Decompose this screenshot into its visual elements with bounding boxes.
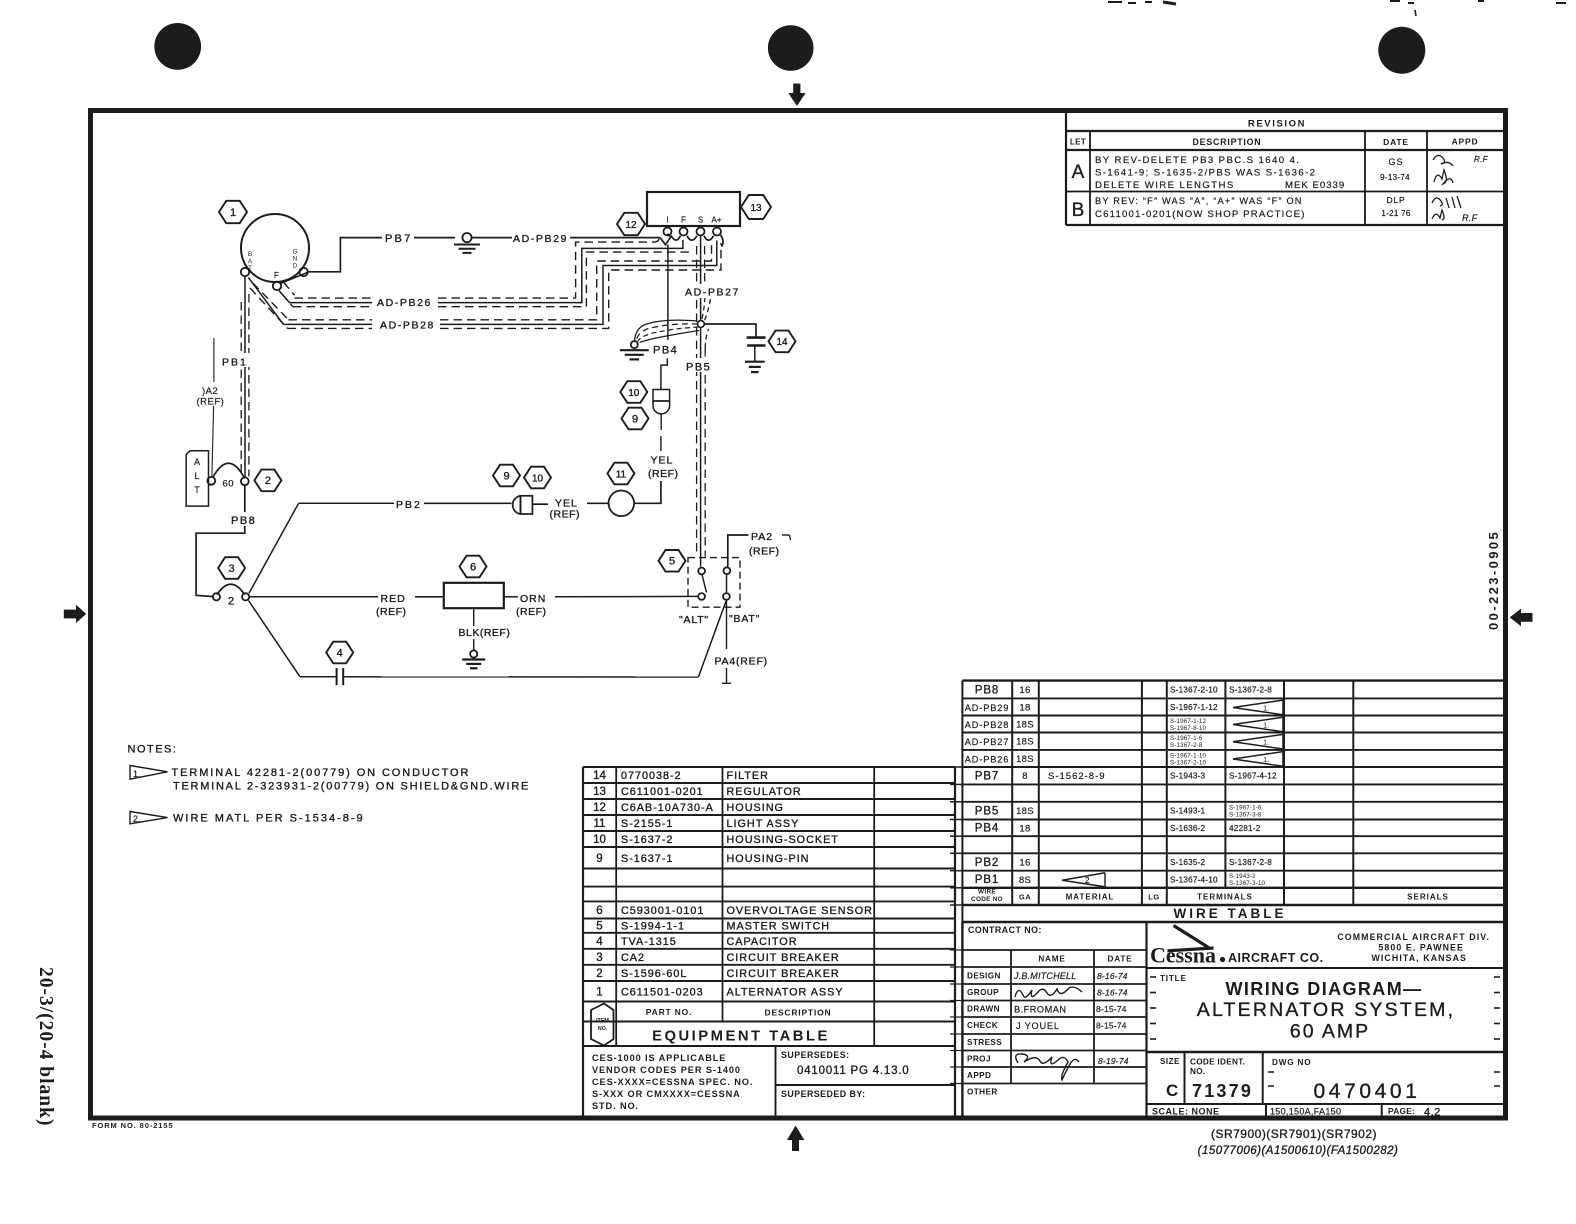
svg-text:REVISION: REVISION [1248,119,1306,130]
note flag 2 [130,812,168,824]
svg-text:11: 11 [594,818,606,830]
svg-text:APPD: APPD [967,1071,991,1080]
svg-text:S-1967-4-12: S-1967-4-12 [1229,772,1277,781]
svg-text:4: 4 [337,647,343,659]
svg-text:00-223-0905: 00-223-0905 [1486,530,1501,630]
svg-text:2: 2 [265,475,271,487]
svg-text:S-1967-1-12: S-1967-1-12 [1170,718,1207,725]
revision table [1065,112,1067,225]
svg-text:HOUSING-PIN: HOUSING-PIN [727,853,810,865]
svg-text:NAME: NAME [1038,955,1065,964]
svg-text:TVA-1315: TVA-1315 [621,936,677,948]
wire [570,237,660,239]
svg-text:TERMINALS: TERMINALS [1197,893,1253,902]
svg-text:PB5: PB5 [686,362,711,374]
svg-text:EQUIPMENT TABLE: EQUIPMENT TABLE [652,1029,830,1045]
svg-text:ALTERNATOR ASSY: ALTERNATOR ASSY [727,986,844,998]
callout hexagon 14 [769,331,796,353]
equipment table [583,766,955,768]
svg-text:S-1967-1-6: S-1967-1-6 [1170,735,1203,742]
title block [961,922,963,1119]
svg-text:MEK E0339: MEK E0339 [1285,180,1345,191]
svg-text:0770038-2: 0770038-2 [621,770,682,782]
svg-text:S-1367-3-10: S-1367-3-10 [1229,880,1266,887]
svg-text:5: 5 [669,556,675,568]
callout hexagon 1 [219,201,247,223]
callout hexagon 10 [524,467,551,489]
bundle AD-PB28 right portion with staircase [440,244,712,320]
svg-text:DRAWN: DRAWN [967,1005,1000,1014]
wire PB8 [196,485,245,596]
svg-text:B: B [248,251,252,258]
svg-text:DLP: DLP [1387,195,1406,205]
wire [782,534,790,536]
regulator terminal I [664,228,672,236]
svg-text:STD. NO.: STD. NO. [592,1101,639,1111]
svg-text:BLK(REF): BLK(REF) [459,627,511,639]
svg-text:CIRCUIT BREAKER: CIRCUIT BREAKER [727,952,840,964]
svg-text:S-1367-2-8: S-1367-2-8 [1229,858,1272,867]
svg-text:SUPERSEDED BY:: SUPERSEDED BY: [781,1089,866,1099]
svg-text:10: 10 [628,388,640,399]
circuit breaker 60A (item 2) terminals [207,477,215,485]
svg-text:C6AB-10A730-A: C6AB-10A730-A [621,802,714,814]
svg-text:TERMINAL 42281-2(00779) ON CON: TERMINAL 42281-2(00779) ON CONDUCTOR [172,767,471,779]
svg-text:LET: LET [1070,138,1086,147]
regulator terminal S [697,228,705,236]
svg-text:10: 10 [532,473,544,484]
svg-text:2: 2 [228,596,234,608]
wire AD-PB29 [472,237,512,239]
wire [415,596,444,598]
svg-text:9: 9 [632,413,638,425]
svg-text:S-1967-1-6: S-1967-1-6 [1229,804,1262,811]
svg-text:13: 13 [593,786,606,798]
svg-text:MATERIAL: MATERIAL [1066,893,1115,902]
callout hexagon 10 [620,381,647,403]
svg-text:S-1367-2-8: S-1367-2-8 [1170,742,1203,749]
overvoltage sensor (item 6) [444,583,504,608]
svg-text:CODE NO: CODE NO [971,896,1003,903]
svg-text:18S: 18S [1016,737,1034,748]
svg-text:150,150A,FA150: 150,150A,FA150 [1270,1107,1341,1117]
svg-text:S-1641-9; S-1635-2/PBS WAS S-1: S-1641-9; S-1635-2/PBS WAS S-1636-2 [1095,168,1316,179]
svg-text:8-15-74: 8-15-74 [1096,1004,1127,1014]
svg-text:WIRE: WIRE [978,889,996,896]
svg-text:CODE IDENT.: CODE IDENT. [1190,1058,1245,1067]
ground for sensor [473,639,475,650]
wire to master switch BAT pole [344,676,699,678]
wire to capacitor (item 14) [704,324,756,337]
svg-text:PB2: PB2 [396,499,422,511]
breaker arc [217,584,245,594]
svg-text:A: A [248,258,253,265]
svg-text:1.: 1. [1263,703,1269,712]
shield ground [631,341,638,348]
callout hexagon 4 [326,642,353,664]
svg-text:DESIGN: DESIGN [967,972,1001,981]
wire RED(REF) [250,596,378,598]
svg-text:DATE: DATE [1108,955,1133,964]
svg-text:5800 E. PAWNEE: 5800 E. PAWNEE [1378,943,1464,953]
bottom center alignment arrow [787,1126,804,1152]
svg-text:1.: 1. [133,769,141,779]
border frame [91,111,1506,1119]
svg-text:S-XXX OR CMXXXX=CESSNA: S-XXX OR CMXXXX=CESSNA [592,1089,741,1099]
svg-text:COMMERCIAL AIRCRAFT DIV.: COMMERCIAL AIRCRAFT DIV. [1337,932,1490,942]
svg-text:18S: 18S [1016,754,1034,765]
ground under capacitor [754,346,756,362]
callout hexagon 6 [460,556,487,578]
svg-text:(REF): (REF) [516,606,547,618]
svg-text:SIZE: SIZE [1160,1057,1180,1066]
svg-text:PAGE:: PAGE: [1388,1106,1415,1116]
svg-text:S-1635-2: S-1635-2 [1170,858,1206,867]
svg-text:D: D [293,263,298,270]
svg-text:S-1994-1-1: S-1994-1-1 [621,921,685,933]
svg-text:2: 2 [1085,876,1090,885]
capacitor C14 plates [747,336,766,339]
svg-text:C611501-0203: C611501-0203 [621,986,704,998]
wire PB7 from GND terminal [308,238,382,272]
svg-text:AD-PB28: AD-PB28 [965,720,1010,730]
svg-text:"BAT": "BAT" [729,613,760,625]
svg-text:DELETE WIRE LENGTHS: DELETE WIRE LENGTHS [1095,180,1235,191]
svg-text:HOUSING-SOCKET: HOUSING-SOCKET [727,834,839,846]
wire PA4(REF) [726,601,728,650]
svg-text:13: 13 [750,203,762,214]
breaker arc [213,463,245,478]
svg-text:WIRE MATL PER S-1534-8-9: WIRE MATL PER S-1534-8-9 [173,813,365,825]
svg-text:ITEM: ITEM [596,1018,609,1024]
svg-text:APPD: APPD [1452,137,1479,147]
svg-text:(REF): (REF) [648,468,679,480]
svg-text:9-13-74: 9-13-74 [1380,173,1410,182]
switch blade [702,575,707,593]
svg-text:G: G [292,249,297,256]
svg-text:A: A [1072,162,1085,183]
svg-text:L: L [194,471,199,481]
housing socket/pin (items 10/9) on PB4 [653,390,670,402]
svg-text:DATE: DATE [1383,137,1409,147]
svg-text:TERMINAL 2-323931-2(00779) ON: TERMINAL 2-323931-2(00779) ON SHIELD&GND… [173,781,530,793]
shielded bundle AD-PB28 (wires from BAT) [253,283,289,320]
svg-text:A: A [194,457,200,467]
callout hexagon 9 [493,465,520,487]
switch right link [726,575,728,593]
svg-text:1.: 1. [1263,738,1269,747]
svg-text:WIRE TABLE: WIRE TABLE [1174,906,1287,921]
svg-text:CES-1000 IS APPLICABLE: CES-1000 IS APPLICABLE [592,1053,726,1063]
svg-text:F: F [274,271,279,280]
callout hexagon 5 [659,550,686,572]
svg-text:12: 12 [625,220,637,231]
svg-text:I: I [666,216,668,225]
svg-text:PB1: PB1 [222,357,248,369]
svg-text:S-2155-1: S-2155-1 [621,818,673,830]
svg-text:AD-PB29: AD-PB29 [965,703,1010,713]
svg-text:S-1596-60L: S-1596-60L [621,968,687,980]
svg-text:CIRCUIT BREAKER: CIRCUIT BREAKER [727,968,840,980]
svg-text:PA4(REF): PA4(REF) [715,656,768,668]
svg-text:14: 14 [776,337,788,348]
callout hexagon 2 [254,470,281,492]
svg-text:S-1367-2-10: S-1367-2-10 [1170,759,1207,766]
svg-text:S-1943-2: S-1943-2 [1229,873,1256,880]
right margin stock number (rotated) [1486,530,1501,630]
svg-text:16: 16 [1019,685,1030,696]
svg-text:GA: GA [1019,893,1031,902]
svg-text:S-1967-1-12: S-1967-1-12 [1170,703,1218,712]
master switch (item 5) dashed outline [688,558,740,608]
svg-text:12: 12 [593,802,606,814]
svg-text:4: 4 [596,936,603,948]
svg-text:18: 18 [1019,823,1030,834]
svg-text:C611001-0201: C611001-0201 [621,786,704,798]
left margin page number (rotated) [35,967,56,1126]
svg-text:6: 6 [470,561,476,573]
housing socket/pin (items 9/10) on PB2 [513,496,521,514]
wire PB4 jog [661,359,667,390]
shield fan curves to ground [635,320,698,341]
svg-text:3: 3 [596,952,602,964]
svg-text:LIGHT ASSY: LIGHT ASSY [727,818,800,830]
svg-text:N: N [293,256,298,263]
svg-text:71379: 71379 [1192,1081,1253,1101]
callout hexagon 3 [218,557,245,579]
svg-text:STRESS: STRESS [967,1038,1002,1047]
svg-text:11: 11 [616,469,627,480]
svg-text:20-3/(20-4 blank): 20-3/(20-4 blank) [35,967,56,1126]
svg-text:(REF): (REF) [376,606,407,618]
svg-text:C: C [1166,1081,1178,1100]
svg-text:(REF): (REF) [197,397,225,408]
svg-text:18S: 18S [1016,806,1034,817]
svg-text:ORN: ORN [520,593,546,605]
svg-text:S-1637-1: S-1637-1 [621,853,673,865]
svg-text:SCALE: NONE: SCALE: NONE [1152,1107,1220,1117]
terminal F [273,282,281,290]
svg-text:18: 18 [1019,702,1030,713]
svg-text:3: 3 [229,563,235,575]
svg-text:PB8: PB8 [231,515,256,527]
scan specks at top edge [1108,1,1122,3]
regulator terminal A+ [713,228,721,236]
svg-text:(REF): (REF) [749,546,780,558]
regulator housing (items 12/13) [647,192,740,226]
vendor codes note block [775,1046,777,1119]
svg-text:GS: GS [1388,157,1403,167]
svg-text:OTHER: OTHER [967,1088,998,1097]
wire table [962,679,1503,681]
light assy (item 11) [609,491,635,517]
bundle AD-PB26 right portion with staircase [438,236,659,298]
svg-text:1: 1 [596,986,602,998]
registration dot left [154,23,201,70]
svg-text:18S: 18S [1016,720,1034,731]
svg-text:CAPACITOR: CAPACITOR [727,936,798,948]
svg-text:S-1367-2-10: S-1367-2-10 [1170,686,1218,695]
svg-text:PB8: PB8 [975,684,999,696]
callout hexagon 9 [622,408,649,430]
svg-text:AIRCRAFT CO.: AIRCRAFT CO. [1228,951,1324,965]
svg-text:PROJ: PROJ [967,1055,991,1064]
svg-text:PB4: PB4 [653,345,678,357]
svg-text:CA2: CA2 [621,952,645,964]
svg-text:60: 60 [223,479,235,490]
capacitor C4 plates [336,668,338,685]
terminal BAT [241,268,249,276]
svg-text:AD-PB26: AD-PB26 [377,297,432,309]
svg-text:1.: 1. [1263,755,1269,764]
svg-text:R.F: R.F [1462,213,1478,223]
svg-text:AD-PB26: AD-PB26 [965,754,1010,764]
terminal GND [299,268,307,276]
wire from light to connector above [634,481,661,503]
wire from regulator I down through bundles [667,245,669,341]
callout hexagon 12 [617,213,645,235]
right edge alignment arrow [1510,609,1533,627]
svg-text:REGULATOR: REGULATOR [727,786,802,798]
svg-text:42281-2: 42281-2 [1229,824,1261,833]
svg-text:PA2: PA2 [751,531,773,543]
shield fan-out junction node [698,321,705,328]
svg-text:C611001-0201(NOW SHOP PRACTICE: C611001-0201(NOW SHOP PRACTICE) [1095,209,1306,220]
wire segments up to housing connector [660,436,662,451]
V-hook into regulator terminal I [660,234,671,245]
svg-text:J.B.MITCHELL: J.B.MITCHELL [1013,971,1076,981]
svg-text:S-1636-2: S-1636-2 [1170,824,1206,833]
svg-text:SERIALS: SERIALS [1407,893,1449,902]
svg-text:PB7: PB7 [975,771,999,783]
svg-text:B.FROMAN: B.FROMAN [1014,1005,1067,1015]
svg-text:16: 16 [1019,858,1030,869]
svg-text:2.: 2. [133,814,141,824]
wire PA2(REF) [728,535,749,567]
note flag 1 [130,766,168,780]
svg-text:S-1562-8-9: S-1562-8-9 [1048,771,1106,782]
svg-text:1-21 76: 1-21 76 [1381,209,1410,218]
svg-text:AD-PB29: AD-PB29 [513,233,568,245]
svg-text:(REF): (REF) [550,508,581,520]
ALT unit break-out box [186,451,208,506]
left edge alignment arrow [64,605,86,623]
switch terminals [698,568,705,575]
top center alignment arrow [788,84,805,107]
svg-text:8-19-74: 8-19-74 [1098,1056,1129,1066]
svg-text:WICHITA, KANSAS: WICHITA, KANSAS [1371,953,1467,963]
shield curls into junction from A+ pair [702,297,706,320]
circuit breaker CA2 (item 3) terminals [213,593,220,600]
svg-text:S-1367-4-10: S-1367-4-10 [1170,875,1218,884]
svg-text:(15077006)(A1500610)(FA1500282: (15077006)(A1500610)(FA1500282) [1198,1145,1399,1157]
registration dot right [1378,27,1425,74]
svg-text:J YOUEL: J YOUEL [1016,1021,1060,1031]
svg-text:SUPERSEDES:: SUPERSEDES: [781,1050,850,1060]
svg-text:60 AMP: 60 AMP [1290,1021,1370,1043]
svg-text:8S: 8S [1019,875,1031,886]
svg-text:S-1367-3-8: S-1367-3-8 [1229,811,1262,818]
svg-text:PB7: PB7 [385,233,412,245]
svg-text:AD-PB27: AD-PB27 [685,287,740,299]
svg-text:8-16-74: 8-16-74 [1097,971,1128,981]
svg-text:S-1367-2-8: S-1367-2-8 [1229,686,1272,695]
svg-text:PB2: PB2 [975,857,999,869]
reference line )A2 [213,338,215,382]
svg-text:VENDOR CODES PER S-1400: VENDOR CODES PER S-1400 [592,1065,741,1075]
shielded bundle AD-PB26 (wires to F/S) [284,282,295,295]
svg-text:9: 9 [503,470,509,482]
wire ORN(REF) [504,596,518,598]
svg-text:DWG NO: DWG NO [1272,1058,1311,1067]
svg-text:NOTES:: NOTES: [128,744,178,756]
svg-text:9: 9 [596,853,602,865]
svg-text:1.: 1. [1263,721,1269,730]
svg-text:PB1: PB1 [975,874,999,886]
wire lacing curls under terminals [671,236,681,241]
svg-text:A+: A+ [711,216,721,225]
wire BLK(REF) to ground [473,608,475,626]
svg-text:S-1967-1-10: S-1967-1-10 [1170,752,1207,759]
callout hexagon 13 [741,195,771,219]
wire [424,502,512,504]
svg-text:RED: RED [381,593,406,605]
wire to capacitor (item 4) [249,601,301,677]
wire to light assy [532,503,548,505]
svg-text:LG: LG [1148,893,1159,902]
svg-text:S-1637-2: S-1637-2 [621,834,673,846]
svg-text:AD-PB28: AD-PB28 [380,320,435,332]
svg-text:1: 1 [230,207,236,219]
svg-text:AD-PB27: AD-PB27 [965,737,1010,747]
svg-text:HOUSING: HOUSING [727,802,784,814]
svg-text:NO.: NO. [598,1026,608,1032]
svg-text:PB4: PB4 [975,823,999,835]
svg-text:C593001-0101: C593001-0101 [621,905,704,917]
svg-text:PART NO.: PART NO. [646,1007,692,1017]
svg-text:8-16-74: 8-16-74 [1097,988,1128,998]
registration dot center [768,25,814,71]
svg-text:CHECK: CHECK [967,1021,998,1030]
svg-text:CONTRACT NO:: CONTRACT NO: [968,925,1042,935]
svg-text:2: 2 [596,968,602,980]
svg-text:DESCRIPTION: DESCRIPTION [1193,137,1262,147]
svg-text:S-1493-1: S-1493-1 [1170,807,1206,816]
svg-text:8-15-74: 8-15-74 [1096,1021,1127,1031]
svg-text:T: T [194,485,200,495]
svg-text:R.F: R.F [1474,155,1489,164]
svg-text:5: 5 [596,921,602,933]
svg-text:6: 6 [596,905,602,917]
svg-text:FILTER: FILTER [727,770,769,782]
svg-text:TITLE: TITLE [1160,974,1187,983]
svg-text:NO.: NO. [1190,1067,1205,1076]
svg-text:DESCRIPTION: DESCRIPTION [765,1008,832,1018]
svg-text:)A2: )A2 [202,386,218,397]
regulator terminal F [680,228,688,236]
svg-text:0470401: 0470401 [1314,1080,1421,1103]
shielded wire PB1 (BAT to breaker 60) [244,276,246,477]
svg-text:BY REV: “F” WAS “A”, “A+” WAS: BY REV: “F” WAS “A”, “A+” WAS “F” ON [1095,196,1303,206]
wire [726,668,728,683]
svg-text:FORM NO. 80-2155: FORM NO. 80-2155 [92,1121,174,1130]
svg-text:CES-XXXX=CESSNA SPEC. NO.: CES-XXXX=CESSNA SPEC. NO. [592,1077,753,1087]
svg-text:F: F [681,216,686,225]
svg-text:"ALT": "ALT" [679,614,709,626]
svg-text:BY REV-DELETE PB3 PBC.S 1640 4: BY REV-DELETE PB3 PBC.S 1640 4. [1095,155,1300,166]
wire [414,237,455,239]
wire PB2 (diagonal + run to light) [249,503,299,593]
